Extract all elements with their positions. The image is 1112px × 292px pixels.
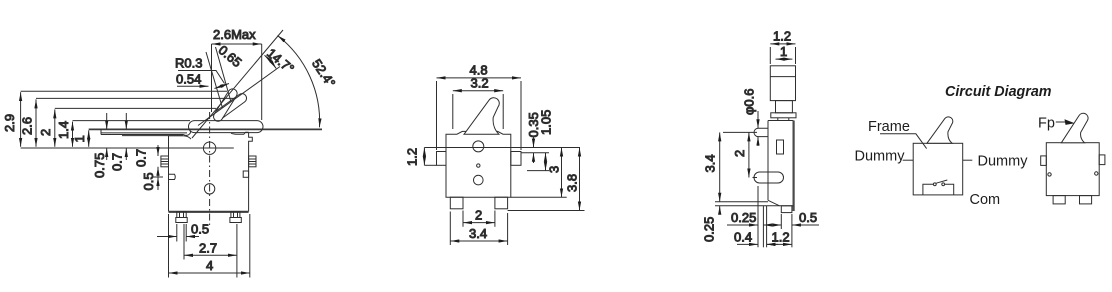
body2 left foot — [1053, 196, 1065, 204]
left bottom foot — [450, 197, 463, 209]
14.7 degree arc — [265, 55, 277, 68]
pivot hub capsule — [189, 121, 264, 133]
52.4 degree ray through pivot — [192, 30, 283, 138]
extension y=170.6 — [527, 170, 549, 172]
lever 2 — [1061, 113, 1088, 142]
2.6Max extension left — [211, 44, 213, 112]
svg-text:4: 4 — [206, 258, 213, 273]
lever top thick line extending to angle arc — [89, 128, 322, 130]
dimension 2.7 — [184, 254, 237, 256]
dimension 0.7 arrows — [125, 113, 127, 160]
svg-text:Dummy: Dummy — [978, 153, 1029, 169]
svg-text:0.5: 0.5 — [191, 222, 209, 237]
dimension 0.35 arrows — [533, 138, 535, 164]
extension line y=108.4 — [55, 107, 216, 109]
dimension 3.2 — [453, 90, 503, 92]
dimension 1.05 — [545, 153, 547, 171]
svg-text:Dummy: Dummy — [855, 149, 906, 165]
lever narrow part — [776, 101, 793, 113]
svg-text:1: 1 — [72, 135, 87, 142]
14.7 degree ray — [198, 67, 280, 126]
lever capsule position B (pressed 14.7) — [217, 94, 247, 119]
right tab — [511, 152, 521, 166]
svg-text:1.2: 1.2 — [405, 148, 420, 166]
3.2 extension lines — [452, 94, 454, 129]
svg-text:0.7: 0.7 — [134, 149, 149, 167]
parting line / dimension baseline y=148 through circle — [21, 147, 234, 149]
tab top extension right — [521, 152, 549, 154]
bottom circle — [204, 184, 214, 194]
dimension 0.25 horizontal — [727, 224, 775, 226]
left tab — [437, 152, 447, 166]
dimension 0.75 arrows — [106, 113, 108, 160]
svg-text:14.7°: 14.7° — [264, 45, 297, 76]
dimension 0.4 — [737, 243, 778, 245]
dimension 3 — [561, 148, 563, 198]
svg-text:2.9: 2.9 — [2, 114, 17, 132]
Frame leader — [880, 134, 927, 149]
bottom foot — [781, 206, 792, 213]
svg-text:0.5: 0.5 — [141, 172, 156, 190]
contact blade — [936, 180, 947, 183]
svg-text:0.65: 0.65 — [216, 42, 245, 70]
right Dummy lead — [963, 159, 973, 161]
svg-text:2.7: 2.7 — [199, 241, 217, 256]
body outline with top platform — [446, 131, 511, 197]
dimension 3.8 — [579, 148, 581, 211]
svg-text:3: 3 — [547, 166, 562, 173]
body right window — [243, 171, 248, 177]
CIRCUIT DIAGRAM — [855, 83, 1105, 208]
svg-text:2: 2 — [475, 208, 482, 223]
dimension 0.5 foot — [771, 224, 819, 226]
dimension 1 top — [776, 58, 793, 60]
dimension 2 feet — [463, 222, 495, 224]
extension line y=120.6 hub top — [73, 120, 191, 122]
svg-text:Com: Com — [970, 192, 1001, 208]
body left bump terminal — [161, 156, 169, 167]
R0.3 leader — [178, 71, 225, 84]
pin 2 capsule — [754, 172, 784, 183]
body outline — [768, 121, 794, 212]
dimension 0.5 feet — [157, 236, 199, 238]
terminal leg lines — [762, 206, 764, 248]
FRONT VIEW (middle) — [405, 63, 585, 246]
switch contact box — [923, 184, 954, 195]
svg-text:0.75: 0.75 — [92, 153, 107, 178]
svg-text:3.2: 3.2 — [471, 76, 489, 91]
SIDE VIEW (left) — [2, 27, 339, 278]
dimension 2.9 vertical line — [20, 92, 22, 147]
switch body 1 — [913, 143, 963, 195]
svg-text:φ0.6: φ0.6 — [742, 88, 757, 115]
left foot — [176, 212, 187, 223]
svg-text:Frame: Frame — [868, 119, 910, 135]
contact dots — [933, 183, 936, 186]
svg-text:2: 2 — [732, 150, 747, 157]
4.8 extension lines — [436, 81, 438, 150]
1.2 extension lines — [769, 47, 771, 64]
lever shaft outer rect — [770, 66, 795, 101]
small middle circle — [477, 164, 480, 167]
pin 1 capsule — [754, 128, 768, 136]
svg-text:0.54: 0.54 — [176, 72, 201, 87]
lower circle — [474, 175, 484, 185]
lever arm bar — [101, 129, 191, 135]
52.4 degree arc — [278, 36, 320, 128]
dimension 2 vertical line — [54, 109, 56, 146]
0.65 dimension arrows — [215, 84, 230, 89]
svg-text:2.6Max: 2.6Max — [213, 27, 256, 42]
svg-text:R0.3: R0.3 — [175, 56, 202, 71]
seating extension lines — [715, 201, 768, 203]
svg-text:Circuit Diagram: Circuit Diagram — [945, 83, 1052, 100]
body2 right tab — [1099, 155, 1105, 165]
top circle — [473, 141, 484, 152]
svg-text:Fp: Fp — [1038, 116, 1055, 132]
parting line across body — [424, 147, 580, 149]
phi 0.6 dimension — [757, 111, 759, 146]
svg-text:1.05: 1.05 — [539, 110, 554, 135]
dimension 1.4 vertical line — [72, 122, 74, 147]
left tab bottom extension — [424, 164, 436, 166]
svg-text:3.8: 3.8 — [565, 174, 580, 192]
lever capsule position A (free) — [214, 89, 238, 121]
dimension 1.2 top — [770, 43, 795, 45]
extension line y=91.2 — [21, 90, 227, 92]
svg-text:1.2: 1.2 — [773, 29, 791, 44]
dimension 2.6 vertical line — [35, 99, 37, 146]
pin center extension lines — [723, 131, 757, 133]
body2 right dot — [1095, 172, 1098, 175]
lever 1 — [927, 117, 953, 143]
dimension 0.7 bump arrows — [157, 145, 159, 178]
svg-text:1.4: 1.4 — [56, 121, 71, 139]
svg-text:3.4: 3.4 — [469, 226, 487, 241]
switch body 2 — [1046, 143, 1099, 196]
0.65 extension lines — [206, 52, 223, 108]
right foot — [230, 212, 241, 223]
svg-text:2: 2 — [38, 129, 53, 136]
top circle — [203, 142, 215, 154]
dimension 0.25 vertical arrow — [719, 206, 721, 214]
body outline — [169, 132, 253, 212]
0.54 leader arrow — [177, 85, 209, 87]
bottom dim extension lines — [176, 224, 178, 242]
dimension 3.4 height — [719, 132, 721, 201]
svg-text:1: 1 — [780, 44, 787, 59]
body left notch — [169, 174, 176, 179]
svg-text:0.4: 0.4 — [734, 230, 752, 245]
svg-text:0.5: 0.5 — [799, 210, 817, 225]
bottom extension line y=197.3 — [511, 196, 567, 198]
extension x=758 — [757, 186, 759, 247]
body2 left dot — [1048, 173, 1051, 176]
right bottom foot — [495, 197, 508, 209]
dimension 4 — [169, 272, 250, 274]
dimension 2 pins — [748, 132, 750, 177]
svg-text:2.6: 2.6 — [20, 117, 35, 135]
2.6Max extension right — [261, 44, 263, 120]
dimension 3.4 — [450, 240, 507, 242]
extension foot edges — [780, 214, 782, 229]
dimension 1 vertical line — [88, 130, 90, 147]
feet bottom extension y=210.5 — [508, 210, 585, 212]
svg-text:0.25: 0.25 — [731, 210, 756, 225]
Fp arrow — [1056, 121, 1066, 123]
svg-text:0.7: 0.7 — [110, 153, 125, 171]
SIDE VIEW 2 (third) — [702, 29, 820, 248]
lever flange — [771, 113, 796, 118]
svg-text:1.2: 1.2 — [772, 230, 790, 245]
left Dummy lead — [903, 159, 914, 161]
actuator lever — [464, 98, 499, 135]
vertical centerline dash-dot — [209, 112, 211, 228]
lever shaft inner line — [770, 76, 795, 78]
body2 right foot — [1080, 196, 1092, 204]
body window — [777, 140, 784, 154]
body right bump terminal — [249, 156, 256, 167]
flange feet — [777, 118, 779, 121]
dimension 1.2 bottom — [767, 243, 792, 245]
dimension 1.2 left — [423, 148, 425, 166]
svg-text:0.25: 0.25 — [702, 217, 717, 242]
dimension 0.5 bump arrow — [152, 177, 163, 190]
svg-text:3.4: 3.4 — [703, 154, 718, 172]
body2 left tab — [1041, 156, 1047, 166]
dimension 2.6Max line — [212, 43, 262, 45]
extension line y=98.4 — [36, 97, 235, 99]
dimension 4.8 — [437, 77, 522, 79]
feet inner extension lines — [462, 211, 464, 227]
feet outer extension lines — [449, 212, 451, 246]
